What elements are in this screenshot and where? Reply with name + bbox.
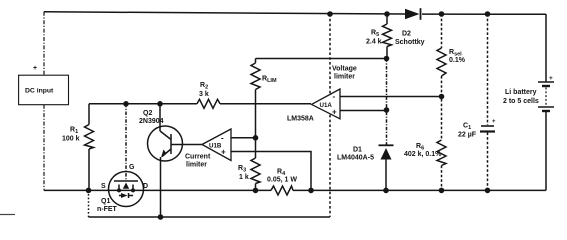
op-amp U1A (312, 89, 341, 119)
resistor R2 (197, 99, 220, 108)
wire D1 column dashed (386, 59, 388, 145)
junction Q1 source terminal (117, 188, 121, 192)
transistor Q1 gate arrow (123, 183, 129, 189)
wire lower rail riser dotted (88, 190, 90, 217)
svg-text:G: G (129, 164, 135, 171)
diode D2 (405, 9, 420, 19)
junction U1A noninverting D1 (384, 107, 390, 113)
svg-text:0.1%: 0.1% (449, 57, 466, 64)
svg-text:-: - (333, 92, 336, 101)
svg-text:RLIM: RLIM (262, 76, 277, 85)
svg-text:Li battery: Li battery (505, 89, 537, 96)
svg-text:Voltage: Voltage (332, 66, 357, 73)
svg-text:+: + (549, 75, 553, 82)
wire gate drive horizontal (89, 103, 311, 105)
svg-text:U1B: U1B (209, 143, 222, 150)
svg-text:LM358A: LM358A (287, 116, 314, 123)
diode D1 (381, 148, 392, 160)
wire lower rail (89, 216, 331, 218)
junction Rsel at top rail (439, 11, 445, 17)
op-amp U1B (202, 129, 231, 161)
junction R4 right sense (308, 188, 314, 194)
junction Q1 gate (123, 101, 129, 107)
svg-text:S: S (101, 183, 106, 190)
wire top rail right of D2 (422, 13, 546, 15)
wire DC input bottom riser (43, 105, 45, 191)
junction C1 at top rail (485, 11, 491, 17)
wire gate dashed line (125, 104, 127, 181)
svg-text:3 k: 3 k (199, 91, 209, 98)
svg-text:Q1: Q1 (101, 198, 110, 205)
transistor Q2 (148, 126, 183, 161)
svg-text:R2: R2 (200, 82, 208, 91)
capacitor C1 (480, 126, 495, 132)
transistor Q1 (109, 172, 144, 207)
svg-text:Schottky: Schottky (395, 39, 425, 46)
svg-text:1 k: 1 k (239, 174, 249, 181)
svg-text:limiter: limiter (186, 162, 207, 169)
resistor R6 (437, 140, 446, 166)
junction R6 bottom (439, 188, 445, 194)
svg-text:D1: D1 (353, 147, 362, 154)
DC input box (19, 75, 69, 105)
wire bottom rail (44, 189, 546, 191)
scan artifact line (0, 214, 15, 216)
svg-text:+: + (33, 65, 37, 72)
svg-text:2.4 k: 2.4 k (366, 39, 382, 46)
junction C1 bottom (485, 188, 491, 194)
svg-text:D2: D2 (402, 31, 411, 38)
svg-text:D: D (143, 183, 148, 190)
svg-text:LM4040A-5: LM4040A-5 (337, 155, 374, 162)
svg-text:C1: C1 (463, 123, 471, 132)
resistor R5 (383, 24, 392, 47)
junction Q2 collector (157, 101, 163, 107)
junction D1 anode (383, 188, 389, 194)
junction R1 bottom (86, 188, 92, 194)
junction Q1 drain terminal (131, 188, 135, 192)
resistor RLIM (251, 63, 260, 90)
svg-text:402 k, 0.1%: 402 k, 0.1% (404, 151, 442, 158)
wire R5 drop (386, 14, 388, 59)
svg-text:limiter: limiter (334, 74, 355, 81)
svg-text:R1: R1 (70, 127, 78, 136)
wire R1 branch (88, 104, 90, 191)
svg-text:2N3904: 2N3904 (139, 118, 164, 125)
resistor R1 (85, 125, 94, 150)
wire DC input top riser (43, 12, 45, 75)
svg-text:22 µF: 22 µF (458, 132, 477, 139)
wire Q2 collector riser (159, 104, 161, 131)
svg-text:+: + (221, 148, 226, 157)
wire battery top riser (545, 14, 547, 82)
wire U1B noninverting sense (231, 152, 311, 191)
wire C1 column dashed (487, 14, 489, 190)
wire Q2 emitter drop (160, 157, 162, 217)
wire RLIM column (255, 59, 257, 191)
svg-text:0.05, 1 W: 0.05, 1 W (267, 177, 297, 184)
junction Q2 emitter return (158, 214, 164, 220)
junction R5 at top rail (384, 11, 390, 17)
svg-text:-: - (221, 134, 224, 143)
wire reference node horizontal (256, 58, 387, 60)
resistor Rsel (437, 48, 446, 76)
svg-text:2 to 5 cells: 2 to 5 cells (503, 98, 539, 105)
svg-text:R5: R5 (371, 30, 379, 39)
wire U1A inverting input (340, 96, 442, 98)
wire Rsel column dashed (441, 14, 443, 190)
junction U1A inverting divider (439, 94, 445, 100)
wire U1A noninverting input (340, 110, 387, 112)
wire op-amp supply column dashed (329, 14, 331, 217)
transistor Q1 body diode (121, 193, 128, 198)
junction R3-R4 left (253, 188, 259, 194)
svg-text:n-FET: n-FET (97, 206, 118, 213)
svg-text:+: + (492, 119, 496, 125)
battery B1 (538, 82, 554, 111)
svg-text:100 k: 100 k (62, 136, 80, 143)
wire top rail left of D2 (44, 12, 405, 14)
svg-text:DC input: DC input (25, 88, 54, 95)
svg-text:+: + (332, 108, 337, 117)
wire D1 to rail (385, 160, 387, 191)
junction U1B inverting (253, 135, 259, 141)
svg-text:Q2: Q2 (143, 110, 152, 117)
resistor R4 (271, 186, 293, 195)
wire U1B inverting input (231, 137, 256, 139)
svg-text:Current: Current (185, 154, 211, 161)
junction op-amp supply at top rail (327, 11, 333, 17)
wire battery bottom riser (545, 111, 547, 190)
svg-text:R3: R3 (238, 165, 246, 174)
node A reference R5-RLIM (384, 56, 390, 62)
resistor R3 (251, 158, 260, 184)
svg-text:U1A: U1A (320, 102, 333, 109)
transistor Q2 emitter arrow (161, 150, 167, 158)
